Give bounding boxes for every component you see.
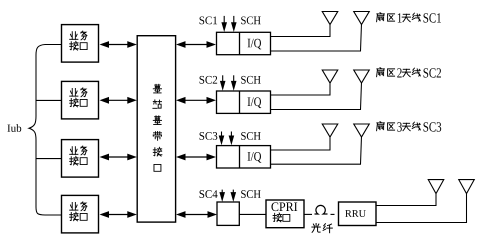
wire row 3 to antenna a (271, 136, 331, 150)
bidirectional arrow baseband to SC2 modulator (176, 97, 216, 104)
SCH label row 4 (241, 190, 260, 198)
SCH label row 3 (241, 132, 260, 140)
wire Iub brace to service interface box 4 (45, 214, 62, 216)
SC3 label (200, 132, 218, 140)
dashed fiber link to RRU (331, 213, 335, 215)
SC1 modulator / IQ box (217, 32, 271, 54)
SCH down arrows row 1 (221, 16, 227, 32)
fiber coil symbol (315, 205, 328, 214)
antenna row 3 a (322, 124, 338, 137)
SCH label row 1 (241, 16, 260, 24)
bidirectional arrow baseband to SC3 modulator (176, 154, 216, 161)
wire SC4 box to CPRI (239, 213, 266, 215)
wire Iub brace to service interface box 1 (45, 44, 62, 46)
bidirectional arrow box 3 to baseband (100, 154, 137, 161)
CPRI interface box (CPRI 接口) (266, 200, 304, 228)
Iub net label (7, 124, 21, 132)
wire row 3 to antenna b (271, 136, 362, 164)
bidirectional arrow box 1 to baseband (100, 41, 137, 48)
wire Iub brace to service interface box 3 (36, 158, 62, 160)
SC2 modulator / IQ box (217, 91, 271, 113)
antenna row 1 b (354, 12, 370, 25)
antenna row 2 a (322, 70, 338, 83)
SCH down arrows row 3 (219, 132, 225, 146)
SC2 label (200, 76, 218, 84)
fiber label (光纤) (312, 223, 320, 232)
bidirectional arrow box 2 to baseband (100, 97, 137, 104)
bidirectional arrow baseband to SC1 modulator (176, 41, 216, 48)
bidirectional arrow baseband to SC4 box (176, 211, 217, 218)
wire row 2 to antenna b (271, 82, 362, 110)
RRU antenna a (428, 180, 444, 194)
brace from Iub to service interfaces (29, 45, 45, 216)
SCH down arrows row 2 (220, 75, 226, 90)
antenna row 2 b (354, 70, 370, 83)
wire RRU to antenna a (376, 194, 436, 206)
wire row 1 to antenna a (271, 24, 331, 37)
SC3 modulator / IQ box (217, 146, 271, 168)
baseband interface box (基站基带接口) (137, 36, 175, 222)
RRU antenna b (459, 180, 475, 194)
SCH label row 2 (241, 76, 260, 84)
wire CPRI to fiber loop (304, 213, 312, 215)
antenna row 1 a (322, 12, 338, 25)
service interface box 1 (业务接口) (62, 25, 99, 63)
bidirectional arrow box 4 to baseband (100, 211, 137, 218)
antenna row 3 b (354, 124, 370, 137)
sector 1 antenna label (扇区1天线SC1) (377, 13, 385, 22)
service interface box 2 (业务接口) (62, 81, 99, 119)
wire row 2 to antenna a (271, 82, 331, 95)
service interface box 3 (业务接口) (62, 140, 99, 178)
sector 2 antenna label (扇区2天线SC2) (377, 68, 385, 77)
wire Iub brace to service interface box 2 (36, 99, 62, 101)
wire row 1 to antenna b (271, 24, 362, 52)
SCH down arrows row 4 (219, 190, 225, 202)
sector 3 antenna label (扇区3天线SC3) (377, 122, 385, 131)
SC1 label (200, 16, 218, 24)
service interface box 4 (业务接口) (62, 195, 99, 233)
SC4 label (200, 190, 218, 198)
wire RRU to antenna b (376, 194, 467, 223)
SC4 box (217, 202, 239, 225)
RRU box (339, 202, 377, 226)
